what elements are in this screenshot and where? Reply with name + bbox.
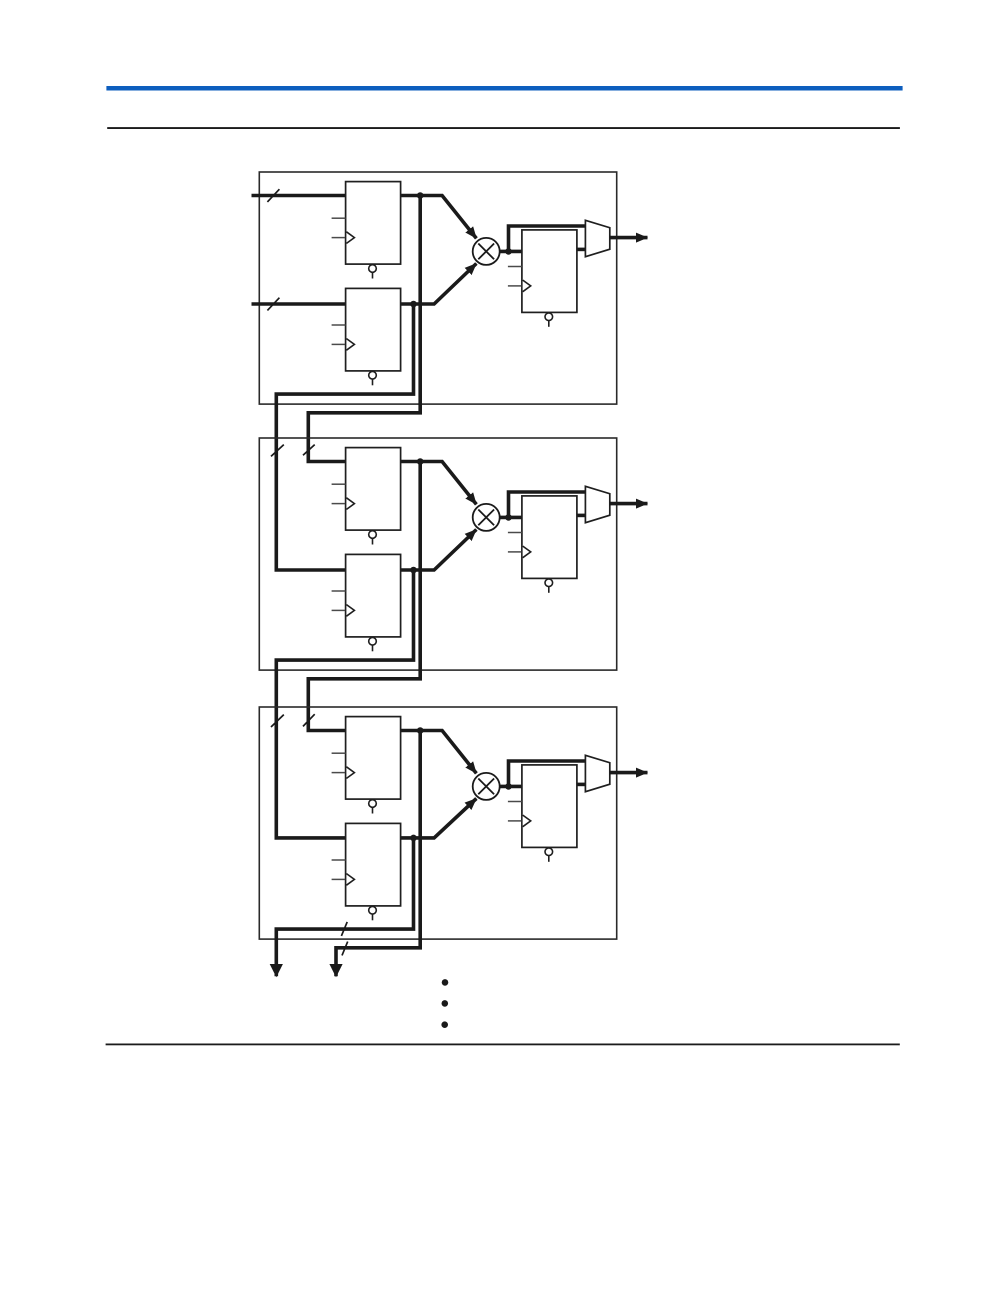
register B3: [332, 823, 401, 920]
node junction a3: [417, 727, 424, 734]
wire reg5 out to multiplier: [401, 731, 477, 774]
wire mux2 bypass: [509, 492, 586, 517]
register B2: [332, 554, 401, 651]
wire output arrow 1: [610, 236, 648, 240]
footer rule thin: [106, 1044, 900, 1046]
slice 1 boundary box: [259, 172, 616, 404]
wire a-cascade block2 to block3: [308, 462, 420, 731]
wire b-cascade block2 to block3: [276, 570, 413, 838]
node junction m3: [505, 783, 512, 790]
multiplier M3: [473, 773, 500, 800]
register A2: [332, 448, 401, 545]
register P1 output: [508, 230, 577, 327]
register A1: [332, 182, 401, 279]
register A3: [332, 717, 401, 814]
multiplier M1: [473, 238, 500, 265]
wire b-cascade block3 out: [276, 838, 413, 976]
wire reg P1 out to mux: [578, 248, 586, 252]
wire mux3 bypass: [509, 761, 586, 786]
wire multiplier3 out: [500, 785, 522, 789]
slice 3 boundary box: [259, 707, 616, 939]
bus slash b-cascade 1-2: [271, 445, 284, 457]
wire reg P3 out to mux: [578, 783, 586, 787]
wire b-cascade block1 to block2: [276, 304, 413, 570]
ellipsis dot 3: [441, 1021, 448, 1028]
node junction b3: [410, 835, 417, 842]
mux MUX2: [585, 486, 609, 522]
bus slash b-cascade out: [341, 922, 347, 936]
register P2 output: [508, 496, 577, 593]
wire a-cascade block1 to block2: [308, 196, 420, 462]
wire a-cascade block3 out: [336, 731, 420, 977]
wire reg6 out to multiplier: [401, 799, 477, 838]
wire output arrow 2: [610, 502, 648, 506]
register B1: [332, 288, 401, 385]
slice 2 boundary box: [259, 438, 616, 670]
node junction a1: [417, 192, 424, 199]
ellipsis dot 2: [442, 1000, 449, 1007]
wire reg P2 out to mux: [578, 514, 586, 518]
wire multiplier1 out: [500, 250, 522, 254]
node junction a2: [417, 458, 424, 465]
node junction m1: [505, 248, 512, 255]
bus slash a-cascade 2-3: [303, 714, 315, 726]
multiplier M2: [473, 504, 500, 531]
header rule blue: [106, 86, 902, 91]
mux MUX1: [585, 220, 609, 256]
wire reg3 out to multiplier: [401, 462, 477, 505]
node junction b1: [410, 301, 417, 308]
header rule thin: [107, 127, 900, 129]
wire reg2 out to multiplier: [401, 264, 477, 305]
wire reg4 out to multiplier: [401, 530, 477, 571]
bus slash a-cascade 1-2: [303, 445, 315, 456]
bus slash b-cascade 2-3: [271, 715, 284, 727]
wire multiplier2 out: [500, 516, 522, 520]
ellipsis dot 1: [442, 979, 449, 986]
bus slash B1: [267, 298, 279, 311]
node junction b2: [410, 567, 417, 574]
register P3 output: [508, 765, 577, 862]
wire input A1: [252, 194, 346, 198]
wire reg1 out to multiplier: [401, 196, 477, 239]
mux MUX3: [585, 755, 609, 791]
wire output arrow 3: [610, 771, 648, 775]
bus slash a-cascade out: [342, 942, 348, 956]
node junction m2: [505, 514, 512, 521]
wire input B1: [252, 302, 346, 306]
bus slash A1: [267, 189, 279, 202]
wire mux1 bypass: [509, 226, 586, 251]
